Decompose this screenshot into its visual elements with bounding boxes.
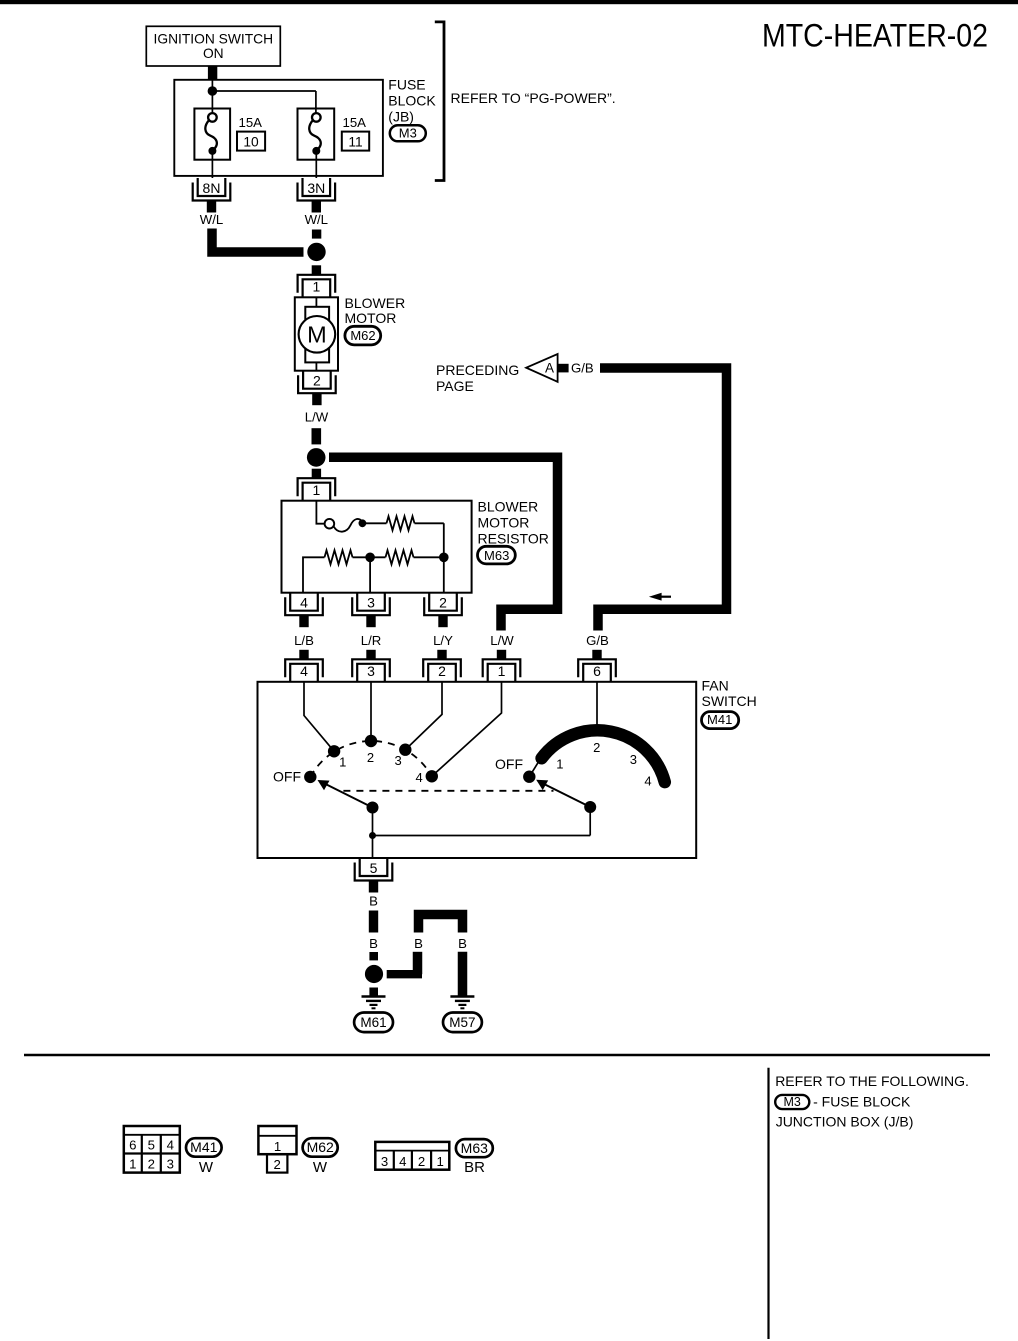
svg-text:M61: M61 — [360, 1015, 386, 1030]
svg-text:IGNITION SWITCH: IGNITION SWITCH — [154, 32, 274, 47]
svg-text:1: 1 — [339, 754, 346, 769]
svg-text:M: M — [307, 322, 327, 348]
svg-text:1: 1 — [313, 279, 321, 295]
svg-text:ON: ON — [203, 46, 224, 61]
svg-text:G/B: G/B — [586, 633, 609, 648]
svg-text:1: 1 — [498, 663, 506, 679]
svg-text:4: 4 — [300, 595, 308, 611]
svg-text:M57: M57 — [449, 1015, 475, 1030]
svg-text:MTC-HEATER-02: MTC-HEATER-02 — [762, 18, 988, 54]
svg-text:B: B — [369, 936, 378, 951]
svg-text:10: 10 — [243, 135, 259, 150]
svg-text:(JB): (JB) — [388, 109, 414, 125]
svg-text:5: 5 — [370, 860, 378, 876]
svg-text:B: B — [414, 936, 423, 951]
svg-text:2: 2 — [313, 373, 321, 389]
svg-text:L/R: L/R — [361, 633, 382, 648]
svg-text:6: 6 — [129, 1138, 136, 1153]
svg-text:L/W: L/W — [490, 633, 514, 648]
svg-text:M62: M62 — [350, 328, 375, 343]
svg-text:1: 1 — [129, 1156, 136, 1171]
svg-text:RESISTOR: RESISTOR — [478, 531, 549, 547]
svg-text:5: 5 — [148, 1138, 155, 1153]
svg-text:BR: BR — [464, 1159, 485, 1176]
svg-text:L/Y: L/Y — [433, 633, 453, 648]
svg-text:M62: M62 — [307, 1139, 334, 1155]
svg-text:M63: M63 — [461, 1140, 488, 1156]
svg-text:OFF: OFF — [495, 756, 523, 772]
svg-text:2: 2 — [438, 663, 446, 679]
svg-text:3: 3 — [367, 663, 375, 679]
svg-text:3: 3 — [394, 753, 401, 768]
svg-text:2: 2 — [439, 595, 447, 611]
svg-text:L/B: L/B — [294, 633, 314, 648]
svg-text:2: 2 — [367, 750, 374, 765]
svg-text:15A: 15A — [343, 115, 367, 130]
svg-text:FUSE: FUSE — [388, 77, 425, 93]
svg-text:PAGE: PAGE — [436, 378, 474, 394]
svg-text:L/W: L/W — [305, 410, 329, 425]
svg-text:MOTOR: MOTOR — [478, 515, 530, 531]
svg-text:BLOWER: BLOWER — [345, 295, 406, 311]
svg-text:FAN: FAN — [702, 678, 729, 694]
svg-text:- FUSE BLOCK: - FUSE BLOCK — [813, 1093, 911, 1109]
svg-text:M63: M63 — [484, 548, 509, 563]
svg-text:4: 4 — [415, 770, 422, 785]
svg-text:W: W — [199, 1159, 214, 1176]
svg-text:3N: 3N — [307, 180, 325, 196]
svg-text:2: 2 — [148, 1156, 155, 1171]
svg-text:4: 4 — [644, 774, 651, 789]
svg-text:W: W — [313, 1159, 328, 1176]
svg-text:W/L: W/L — [200, 212, 223, 227]
svg-text:M41: M41 — [190, 1139, 217, 1155]
svg-text:11: 11 — [348, 135, 362, 150]
svg-text:A: A — [545, 361, 554, 376]
svg-text:M3: M3 — [399, 126, 417, 141]
svg-text:3: 3 — [167, 1156, 174, 1171]
svg-text:M3: M3 — [784, 1095, 801, 1109]
svg-text:M41: M41 — [707, 712, 732, 727]
svg-text:3: 3 — [381, 1154, 388, 1169]
svg-text:1: 1 — [437, 1154, 444, 1169]
svg-text:3: 3 — [630, 752, 637, 767]
svg-text:JUNCTION BOX (J/B): JUNCTION BOX (J/B) — [776, 1114, 914, 1130]
svg-text:B: B — [458, 936, 467, 951]
svg-text:2: 2 — [274, 1157, 281, 1172]
svg-text:REFER TO “PG-POWER”.: REFER TO “PG-POWER”. — [451, 90, 616, 106]
svg-text:MOTOR: MOTOR — [345, 310, 397, 326]
svg-text:REFER TO THE FOLLOWING.: REFER TO THE FOLLOWING. — [775, 1073, 969, 1089]
svg-text:W/L: W/L — [305, 212, 328, 227]
svg-text:SWITCH: SWITCH — [702, 693, 757, 709]
svg-text:8N: 8N — [203, 180, 221, 196]
svg-text:OFF: OFF — [273, 769, 301, 785]
svg-text:1: 1 — [313, 482, 321, 498]
svg-text:2: 2 — [593, 740, 600, 755]
svg-text:6: 6 — [593, 663, 601, 679]
svg-text:B: B — [369, 894, 378, 909]
svg-text:BLOCK: BLOCK — [388, 93, 436, 109]
svg-text:BLOWER: BLOWER — [478, 499, 539, 515]
svg-text:4: 4 — [399, 1154, 406, 1169]
svg-text:4: 4 — [167, 1138, 174, 1153]
svg-text:4: 4 — [300, 663, 308, 679]
svg-text:G/B: G/B — [571, 360, 594, 375]
svg-text:3: 3 — [367, 595, 375, 611]
svg-text:1: 1 — [556, 757, 563, 772]
svg-text:1: 1 — [274, 1139, 281, 1154]
svg-text:15A: 15A — [239, 115, 263, 130]
svg-text:PRECEDING: PRECEDING — [436, 362, 519, 378]
svg-text:2: 2 — [418, 1154, 425, 1169]
